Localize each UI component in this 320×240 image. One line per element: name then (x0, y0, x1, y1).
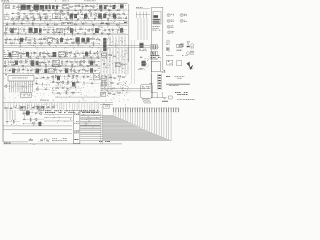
transistor Q6 (24, 15, 27, 18)
capacitor C69 (6, 121, 9, 123)
resistor R102 (64, 70, 68, 71)
diode D10 (22, 18, 25, 19)
value labels (92, 37, 97, 38)
table frame (152, 7, 164, 98)
capacitor C40 (19, 43, 22, 45)
capacitor C22 (21, 23, 24, 25)
wire (12, 133, 72, 135)
diode D36 (21, 107, 24, 108)
transistor Q3 (35, 9, 38, 12)
diode D22 (86, 53, 89, 54)
resistor R110 (76, 82, 80, 83)
IC U2 (53, 14, 59, 19)
junction N9 (24, 32, 27, 35)
junction N1 (49, 18, 52, 21)
value labels (7, 60, 29, 62)
resistor R120 (30, 118, 31, 122)
transformer coil L24 (11, 28, 14, 32)
diode D26 (31, 65, 34, 66)
connector J1 (5, 5, 10, 9)
capacitor C25 (47, 29, 50, 31)
wire (64, 28, 95, 30)
wire (23, 123, 44, 125)
resistor R50 (21, 39, 25, 40)
wire (53, 79, 78, 86)
junction N2 (87, 17, 90, 20)
capacitor C31 (112, 29, 115, 31)
capacitor C59 (58, 76, 61, 78)
resistor R55 (43, 38, 47, 39)
resistor R17 (62, 13, 66, 14)
wire (5, 42, 100, 44)
wire (57, 84, 75, 91)
resistor R12 (107, 10, 111, 11)
coil L41 (45, 5, 47, 9)
wire (5, 107, 55, 109)
IC U9 pins (10, 81, 33, 93)
coil L2 (40, 5, 45, 9)
resistor R107 (73, 74, 74, 78)
capacitor C11 (123, 13, 126, 15)
resistor R94 (46, 64, 47, 68)
value labels (25, 51, 48, 53)
wire (3, 24, 128, 26)
wire (81, 112, 172, 141)
wire (151, 93, 157, 98)
transformer coil L21 (113, 5, 116, 9)
transistor Q17 (87, 29, 90, 32)
value labels (42, 60, 48, 62)
resistor R13 (116, 10, 120, 11)
value labels (55, 37, 74, 39)
capacitor C53 (78, 70, 81, 72)
wire (12, 13, 52, 15)
capacitor C900 (140, 57, 143, 59)
value labels (101, 31, 124, 33)
resistor R101 (59, 70, 63, 71)
resistor R105 (85, 70, 89, 71)
capacitor C67 (42, 106, 45, 108)
value labels (108, 8, 119, 9)
value labels (24, 114, 35, 116)
transistor Q32 (72, 69, 75, 72)
diode D20 (84, 42, 87, 43)
transistor Q12 (94, 13, 97, 16)
value labels (65, 31, 92, 33)
value labels (4, 50, 10, 58)
junction N12 (116, 31, 119, 34)
capacitor C41 (27, 53, 30, 55)
transistor Q105 pinout (180, 14, 187, 17)
value labels (90, 78, 92, 81)
value labels (55, 41, 75, 43)
capacitor C58 (44, 88, 47, 90)
wire (60, 11, 78, 17)
wire (142, 98, 151, 103)
resistor R29 (33, 22, 34, 26)
IC U16 pin diagram (154, 15, 160, 23)
wire (84, 81, 92, 86)
diode D18 (9, 39, 12, 40)
resistor R69 (33, 52, 37, 53)
value labels (23, 111, 39, 113)
resistor R134 (110, 83, 114, 84)
resistor R4 (69, 6, 73, 7)
diode D9 (81, 14, 84, 15)
resistor R48 (4, 39, 8, 40)
resistor R6 (85, 6, 89, 7)
wire (6, 26, 19, 32)
transistor Q27 (96, 55, 99, 58)
diode D21 (73, 53, 76, 54)
value labels (9, 64, 29, 65)
transformer T7 (29, 28, 33, 33)
wire (17, 9, 127, 11)
IC U34 (101, 92, 106, 96)
wire (5, 85, 33, 87)
transformer coil L36 (57, 76, 60, 80)
transistor Q20 (55, 38, 58, 41)
wire (67, 50, 98, 57)
wire (57, 37, 67, 42)
transformer T6 (98, 13, 102, 18)
wire (138, 18, 147, 40)
relay RL1 (94, 74, 100, 80)
diode D5 (47, 10, 50, 11)
resistor R46 (85, 32, 86, 36)
capacitor C131 (103, 63, 106, 65)
resistor R22 (103, 14, 107, 15)
resistor R117 (51, 107, 55, 108)
value labels (0, 0, 1, 1)
transistor Q34 (35, 88, 38, 91)
value labels (11, 123, 17, 126)
value labels (62, 64, 95, 66)
wire (137, 12, 147, 19)
value labels (45, 113, 72, 123)
junction N13 (30, 52, 33, 55)
resistor R82 (5, 61, 6, 65)
resistor R103 (71, 68, 72, 72)
value labels (6, 41, 46, 43)
value labels (55, 0, 96, 2)
antenna E1 (12, 6, 16, 9)
wire (12, 15, 120, 23)
wire (6, 121, 20, 123)
wire (100, 103, 113, 105)
coil L5 (103, 14, 106, 18)
value labels (151, 55, 161, 59)
coil L8 (103, 38, 106, 51)
resistor R85 (39, 62, 43, 63)
capacitor C16 (83, 18, 86, 20)
value labels (162, 100, 168, 103)
capacitor C12 (26, 18, 29, 20)
value labels (109, 16, 127, 18)
wire (55, 96, 100, 98)
wire (6, 23, 60, 25)
coil L9 (36, 61, 39, 65)
value labels (5, 71, 35, 73)
capacitor C130 (113, 56, 116, 58)
value labels (19, 9, 30, 10)
value labels (109, 74, 128, 88)
resistor R74 (90, 51, 91, 55)
capacitor C32 (117, 29, 120, 31)
wire (45, 5, 62, 7)
resistor R39 (70, 30, 74, 31)
resistor R114 (71, 92, 75, 93)
capacitor C18 (114, 18, 117, 20)
resistor R108 (56, 82, 60, 83)
diode D32 (42, 77, 45, 78)
wire (151, 92, 163, 98)
wire (10, 20, 127, 22)
transformer coil L29 (26, 52, 29, 56)
wire (55, 66, 95, 74)
capacitor C46 (14, 61, 17, 63)
value labels (58, 78, 81, 80)
resistor R100 (53, 69, 57, 70)
resistor R88 (69, 62, 73, 63)
transistor Q11 (58, 12, 61, 15)
wire (55, 69, 100, 71)
wire (43, 28, 56, 31)
value labels (101, 27, 122, 29)
junction N24 (51, 91, 54, 94)
wire (18, 4, 34, 11)
transistor Q107 pinout (187, 41, 190, 47)
capacitor C39 (70, 38, 73, 40)
transistor Q38 (34, 118, 37, 121)
transistor Q110 pinout (191, 44, 194, 49)
value labels (12, 16, 127, 18)
capacitor C29 (104, 29, 107, 31)
junction N3 (100, 17, 103, 20)
resistor R132 (109, 77, 113, 78)
value labels (46, 30, 55, 33)
value labels (152, 26, 160, 30)
transistor Q106 pinout (180, 20, 187, 23)
capacitor C13 (33, 18, 36, 20)
wire (74, 23, 126, 25)
resistor R27 (108, 17, 109, 21)
resistor R34 (5, 27, 6, 31)
transistor Q8 (38, 15, 41, 18)
resistor R93 (37, 65, 41, 66)
diode D3 (109, 6, 112, 7)
capacitor C19 (124, 18, 127, 20)
junction N4 (38, 23, 41, 26)
IC U9 label (5, 73, 7, 76)
capacitor C55 (94, 70, 97, 72)
value labels (53, 81, 75, 82)
wire (5, 29, 28, 32)
wire (36, 88, 50, 90)
wire (83, 76, 93, 78)
IC U5 (12, 52, 18, 57)
resistor R26 (40, 16, 41, 20)
wire (40, 69, 48, 71)
value labels (177, 98, 195, 101)
wire (101, 108, 103, 144)
transformer T1 (21, 5, 26, 10)
wire (62, 59, 94, 65)
transformer coil L37 (72, 82, 75, 86)
value labels (101, 50, 128, 73)
resistor R68 (22, 53, 26, 54)
wire (5, 59, 26, 65)
resistor R65 (76, 43, 80, 44)
IC U12 (141, 84, 153, 98)
value labels (45, 110, 99, 112)
resistor R92 (12, 65, 16, 66)
transistor Q10 (16, 12, 19, 15)
value labels (41, 72, 48, 73)
capacitor C34 (93, 33, 96, 35)
wire (6, 36, 45, 43)
ground (163, 96, 173, 99)
capacitor C38 (61, 38, 64, 40)
value labels (101, 22, 127, 24)
value labels (15, 84, 34, 85)
resistor R33 (116, 24, 120, 25)
capacitor C134 (117, 83, 120, 85)
wire (46, 3, 57, 10)
resistor R901 (29, 140, 33, 141)
coil L7 (86, 38, 89, 43)
diode D12 (55, 17, 58, 18)
transistor Q15 (70, 17, 73, 20)
value labels (166, 76, 184, 79)
resistor R67 (18, 53, 22, 54)
transformer coil L32 (90, 61, 93, 66)
wire (53, 90, 73, 95)
junction N5 (100, 22, 103, 25)
wire (45, 27, 54, 31)
capacitor C66 (10, 108, 13, 110)
wire (36, 87, 38, 89)
diode D19 (4, 42, 7, 43)
value labels (14, 22, 120, 24)
IC U20 pinout (166, 48, 169, 52)
resistor R19 (71, 14, 75, 15)
wire (36, 83, 50, 85)
capacitor C8 (100, 10, 103, 12)
wire (60, 13, 98, 15)
diode D27 (51, 65, 54, 66)
transformer coil L31 (15, 61, 18, 65)
capacitor C21 (13, 23, 16, 25)
IC U31 (116, 63, 121, 67)
value labels (14, 105, 49, 107)
IC U7 (53, 60, 60, 66)
wire (5, 63, 81, 68)
junction N11 (71, 32, 74, 35)
capacitor C37 (52, 38, 55, 40)
resistor R136 (117, 93, 121, 94)
capacitor C24 (92, 24, 95, 26)
wire (52, 81, 82, 83)
IC U15 pins (74, 112, 79, 140)
wire (128, 4, 130, 62)
resistor R119 (22, 113, 26, 114)
transistor Q2 (91, 5, 94, 8)
transformer coil L39 (9, 53, 12, 57)
transistor Q30 (82, 60, 85, 63)
wire (2, 3, 4, 142)
value labels (18, 4, 31, 6)
value labels (64, 68, 100, 70)
transistor Q28 (19, 60, 22, 63)
wire (43, 8, 109, 14)
net AF OUT (62, 22, 72, 25)
resistor R131 (121, 64, 125, 65)
IC U22 pinout (167, 60, 173, 65)
junction N14 (7, 60, 10, 63)
wire (5, 65, 100, 67)
IC U18 pin diagram (151, 62, 160, 72)
resistor R96 (72, 64, 73, 68)
diode D15 (17, 33, 20, 34)
resistor R64 (71, 42, 75, 43)
junction N6 (17, 27, 20, 30)
diode D900 (40, 139, 43, 140)
capacitor C49 (21, 65, 24, 67)
transistor Q109 pinout (181, 44, 184, 47)
transformer coil L40 (45, 69, 48, 73)
capacitor C1 (45, 6, 48, 8)
wire (21, 88, 23, 90)
value labels (56, 86, 79, 88)
transistor Q101 pinout (167, 14, 174, 17)
value labels (105, 12, 123, 14)
transistor Q7 (31, 15, 34, 18)
value labels (18, 109, 52, 111)
value labels (166, 84, 190, 86)
value labels (60, 16, 97, 18)
wire (40, 62, 52, 64)
IC U32 (101, 76, 107, 80)
value labels (53, 89, 81, 90)
resistor R44 (32, 32, 36, 33)
resistor R70 (40, 52, 41, 56)
capacitor C57 (47, 77, 50, 79)
transformer T4 (120, 4, 124, 8)
value labels (11, 119, 16, 121)
value labels (136, 6, 143, 9)
transformer coil L27 (20, 38, 23, 42)
wire (44, 115, 72, 121)
diode D37 (32, 107, 35, 108)
capacitor C4 (81, 6, 84, 8)
wire (34, 124, 41, 126)
capacitor C135 (113, 93, 116, 95)
resistor R73 (68, 52, 72, 53)
diode D14 (46, 24, 49, 25)
value labels (52, 138, 67, 140)
value labels (39, 76, 48, 77)
wire (3, 143, 122, 145)
capacitor C54 (90, 70, 93, 72)
resistor R109 (68, 81, 69, 85)
resistor R84 (25, 60, 26, 64)
value labels (82, 112, 98, 128)
resistor R7 (115, 5, 116, 9)
capacitor C51 (30, 70, 33, 72)
junction N15 (64, 64, 67, 67)
wire (52, 87, 82, 89)
